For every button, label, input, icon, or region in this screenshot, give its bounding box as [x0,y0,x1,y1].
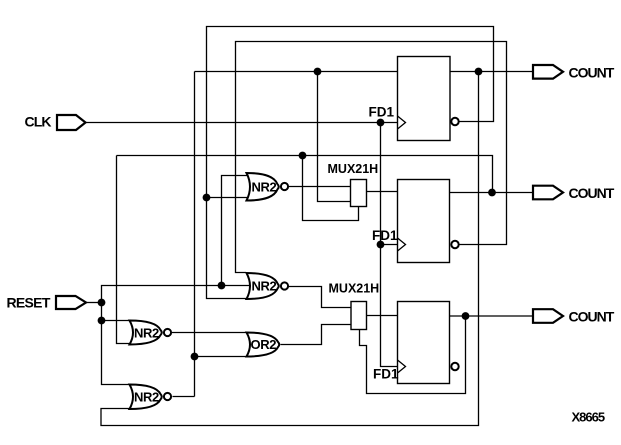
svg-text:OR2: OR2 [251,337,277,352]
wire NR2-1 top input from vertical [222,176,248,286]
output pin COUNT1 [533,65,563,79]
output bubble G4 [164,393,171,400]
svg-text:X8665: X8665 [572,410,605,425]
wire FD1-1 D input row [195,71,398,73]
svg-text:RESET: RESET [7,294,51,310]
QN bubble U3 [451,363,458,370]
wire row155 down to NR2-2 bottom input [117,156,131,344]
output pin COUNT2 [533,186,563,200]
svg-text:FD1: FD1 [372,228,398,243]
wire FD1-1 Q to COUNT [450,71,533,73]
wire CLK horizontal [86,122,398,124]
wire clock vertical distribution [381,123,398,367]
junction dot Q1 branch [475,68,483,76]
wire NR2-4 output stub [173,396,195,398]
wire RESET down to NR2-2 top input [102,303,131,321]
wire QN2 feedback loop (FD1-2 QN to top bus to NR2-2 top input) [236,42,507,273]
output bubble G3 [164,329,171,336]
wire NR2-1 output to MUX21H-1 input A [289,186,351,188]
wire OR2 output to MUX21H-2 input B [281,325,352,345]
svg-text:FD1: FD1 [369,105,395,120]
input pin RESET [56,296,86,309]
output bubble G1 [281,183,288,190]
junction dot NR2-2 middle input [218,282,226,290]
svg-text:CLK: CLK [25,113,52,129]
svg-text:MUX21H: MUX21H [329,282,380,296]
wire MUX21H-1 output to FD1-2 D [367,191,398,193]
mux U5 MUX21H box [351,302,367,330]
junction dot row155 / MUX1 select [299,152,307,160]
flip-flop U3 FD1 box [398,302,450,384]
QN bubble U2 [451,241,458,248]
clock pin triangle U2 [398,238,406,251]
wire OR2 bottom input tap [195,356,248,358]
svg-text:FD1: FD1 [373,367,399,382]
flip-flop U2 FD1 box [398,180,450,263]
wire MUX21H-1 select underpass [303,156,359,221]
junction dot Q2 branch [488,189,496,197]
junction dot CLK x clock vertical [377,119,385,127]
svg-text:NR2: NR2 [252,179,277,194]
svg-text:COUNT: COUNT [569,64,615,80]
nor-gate G2 NR2 body [247,273,279,299]
wire QN1 feedback loop (FD1-1 QN to top bus to NR2 inputs) [207,27,494,299]
wire RESET pin to junction [86,302,102,304]
junction dot NR2-1 bottom input [203,194,211,202]
nor-gate G1 NR2 body [247,173,279,201]
svg-text:MUX21H: MUX21H [328,162,379,176]
junction dot RESET lower [98,317,106,325]
output pin COUNT3 [533,309,563,323]
wire RESET down to NR2-3 top input [102,321,131,385]
junction dot D1 row branch [314,68,322,76]
input pin CLK [57,115,86,130]
flip-flop U1 FD1 box [398,57,451,141]
wire NR2-2 output to OR2 top input [172,332,248,334]
wire NR2-4 output up to D row (long vertical) [194,72,196,397]
svg-text:NR2: NR2 [252,279,277,294]
wire Q3 feedback to MUX21H-2 select [360,316,466,394]
output bubble G2 [281,282,288,289]
wire D row tap down to MUX21H-1 input B [318,72,351,202]
clock pin triangle U3 [398,360,406,373]
QN bubble U1 [451,118,458,125]
wire FD1-3 Q to COUNT [450,315,534,317]
junction dot RESET upper [98,299,106,307]
wire NR2-2 output to MUX21H-2 input A [289,287,352,308]
wire NR2-1 bottom input tap [207,197,248,199]
svg-text:COUNT: COUNT [569,309,615,325]
svg-text:COUNT: COUNT [569,185,615,201]
or-gate G5 OR2 body [247,333,280,357]
mux U4 MUX21H box [351,180,367,207]
junction dot FD1-2 clock [377,241,385,249]
wire MUX21H-2 output to FD1-3 D [367,315,398,317]
nor-gate G3 NR2 body (left middle) [130,321,162,345]
wire Q2 row up-and-over bus [117,156,493,193]
junction dot Q3 branch [462,312,470,320]
svg-text:NR2: NR2 [134,325,159,340]
junction dot OR2 bottom input [191,353,199,361]
wire FD1-2 Q to COUNT [450,192,533,194]
clock pin triangle U1 [398,116,406,129]
wire Q1 down to bottom bus and NR2-3 bottom input [101,72,479,426]
wire FD1-2 clock stub [381,244,398,246]
svg-text:NR2: NR2 [134,390,159,405]
nor-gate G4 NR2 body (bottom) [130,385,162,410]
wire RESET up and over to NR2-2 middle input [102,286,250,303]
